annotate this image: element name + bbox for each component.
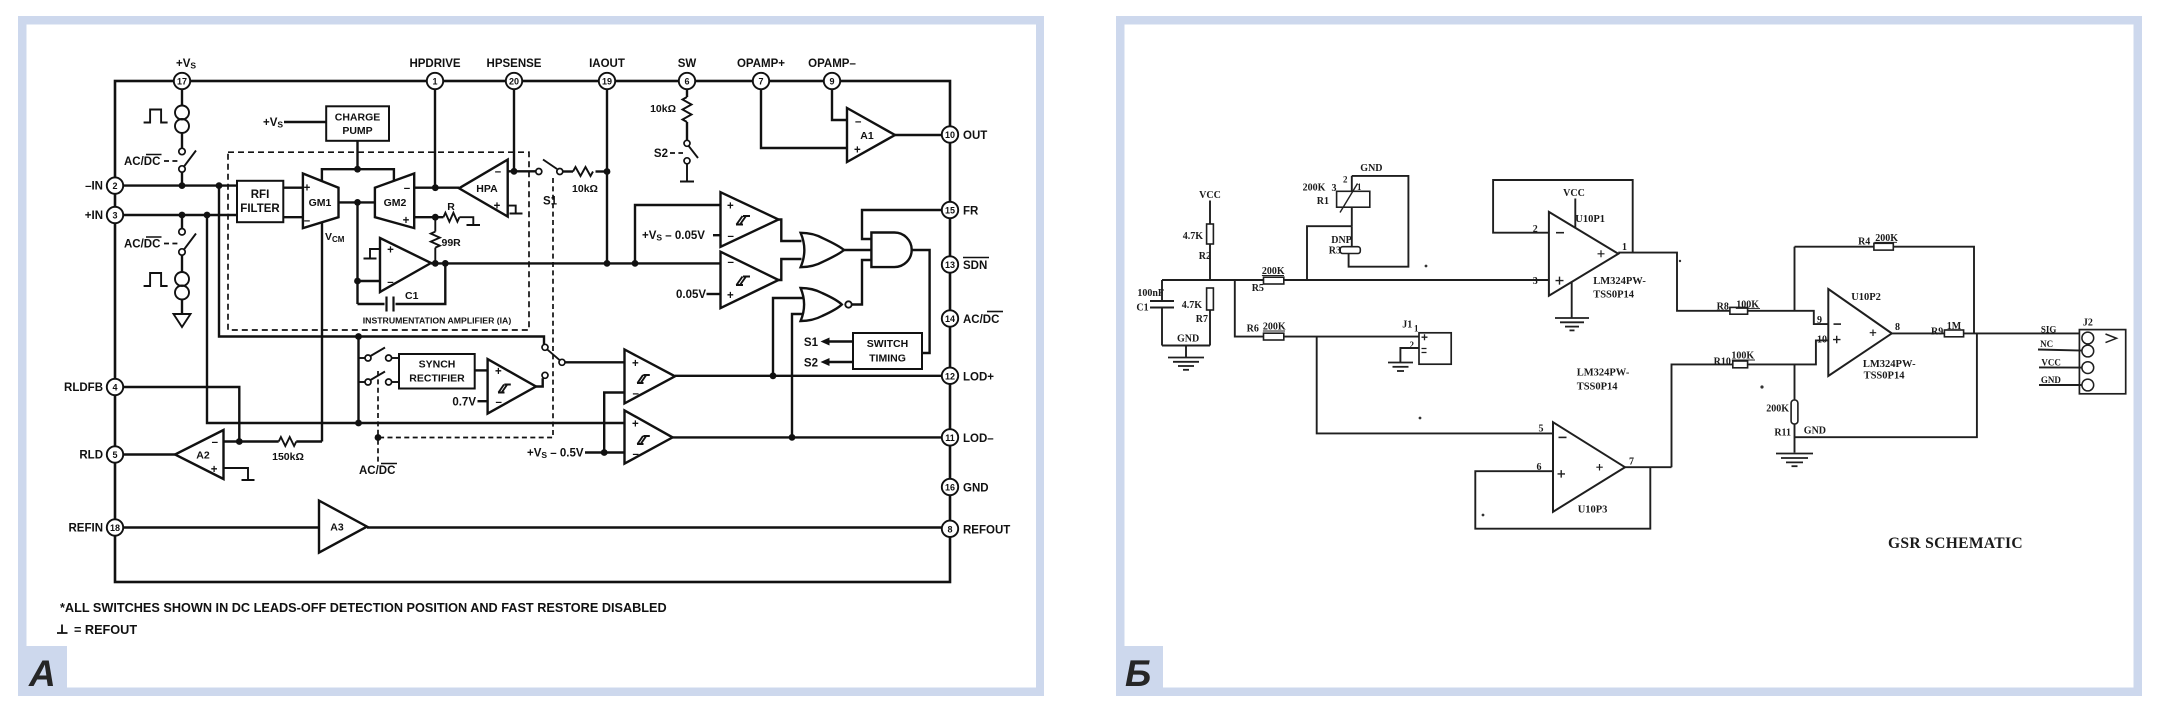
- svg-text:= REFOUT: = REFOUT: [74, 623, 137, 637]
- svg-text:RFI: RFI: [251, 189, 270, 201]
- label +Vs-0.05V: [642, 230, 721, 243]
- pulse symbol upper: [144, 110, 168, 123]
- op-amp HPA: [459, 160, 508, 217]
- wire C1 amp minus stub: [358, 280, 381, 282]
- svg-text:SDN: SDN: [963, 260, 987, 272]
- wire current source to switch: [181, 133, 183, 148]
- node A2 minus: [236, 438, 243, 445]
- svg-text:+VS – 0.5V: +VS – 0.5V: [527, 448, 584, 461]
- wire RFI to GM1 bottom: [283, 216, 303, 218]
- resistor R10 100K: [1714, 351, 1755, 368]
- resistor 10k S1: [563, 167, 607, 195]
- svg-text:–: –: [728, 257, 735, 269]
- svg-text:3: 3: [1332, 183, 1337, 194]
- comparator LOD-: [625, 410, 673, 463]
- switch timing box: [853, 333, 922, 369]
- svg-text:14: 14: [945, 314, 955, 324]
- connector J2: [2079, 318, 2125, 394]
- svg-text:–: –: [633, 388, 640, 400]
- pin 1 HPDRIVE: [409, 58, 460, 89]
- comparator LOD+: [625, 350, 676, 404]
- pin 3 +IN: [85, 207, 123, 223]
- label NC: [2038, 339, 2082, 351]
- current source upper: [175, 106, 189, 134]
- wire R to refout: [459, 217, 480, 225]
- svg-text:R3: R3: [1329, 246, 1341, 257]
- wire to arrow: [181, 300, 183, 314]
- svg-text:–: –: [728, 231, 735, 243]
- pin 4 RLDFB: [64, 379, 123, 395]
- wire -IN: [123, 184, 237, 186]
- svg-text:TSS0P14: TSS0P14: [1577, 382, 1619, 393]
- label GND J2: [2039, 375, 2082, 385]
- node +IN branch: [204, 212, 211, 219]
- switch S2: [684, 140, 698, 164]
- op-amp A1: [847, 108, 895, 162]
- svg-text:U10P3: U10P3: [1578, 505, 1608, 516]
- wire SPDT pole to comparator LOD+: [565, 361, 625, 363]
- svg-text:–: –: [387, 277, 394, 289]
- svg-text:VCC: VCC: [1563, 188, 1585, 199]
- wire GM1 to GM2 mid: [339, 201, 375, 203]
- wire comp1 out to OR: [779, 220, 802, 242]
- switch AC/DC lower: [179, 229, 196, 256]
- node LOD- tap: [789, 434, 796, 441]
- wire GM2 plus stub: [414, 216, 443, 218]
- svg-text:4.7K: 4.7K: [1182, 300, 1203, 311]
- wire U10P1 feedback: [1493, 180, 1633, 253]
- wire output gnd return: [1795, 333, 1977, 437]
- dashed control upper stub: [377, 371, 379, 438]
- svg-text:GSR SCHEMATIC: GSR SCHEMATIC: [1888, 535, 2023, 552]
- wire U10P3 output: [1625, 466, 1672, 468]
- refout symbol at A2 +: [224, 468, 255, 480]
- pin 19 IAOUT: [589, 58, 625, 89]
- svg-text:GM1: GM1: [309, 197, 332, 209]
- svg-text:R9: R9: [1931, 327, 1943, 338]
- node charge pump bridge: [354, 166, 361, 173]
- wire bridge GM1 GM2 tops: [322, 169, 394, 181]
- resistor R4 200K: [1795, 233, 1975, 333]
- wire IA output line: [431, 262, 721, 264]
- svg-text:PUMP: PUMP: [342, 125, 372, 137]
- svg-text:–: –: [212, 437, 219, 449]
- wire LOD+ comp minus reference: [604, 393, 624, 453]
- svg-text:–: –: [404, 183, 411, 195]
- svg-text:7: 7: [758, 77, 763, 87]
- svg-text:2: 2: [112, 181, 117, 191]
- OR gate: [801, 233, 844, 267]
- node IAOUT lower: [604, 260, 611, 267]
- label LM324PW U10P3: [1577, 368, 1630, 393]
- wire R1 gnd loop: [1349, 176, 1409, 267]
- wire LOD+ output to pin 12: [675, 375, 942, 377]
- ground divider: [1168, 346, 1204, 370]
- svg-text:R4: R4: [1858, 237, 1870, 248]
- svg-text:R8: R8: [1717, 302, 1729, 313]
- svg-text:9: 9: [1817, 315, 1822, 326]
- wire +IN node down to switch: [181, 215, 183, 229]
- svg-text:S2: S2: [654, 148, 668, 160]
- svg-text:–IN: –IN: [85, 181, 103, 193]
- resistor R3 DNP: [1329, 226, 1361, 256]
- svg-text:10: 10: [945, 130, 955, 140]
- wire RLDFB: [123, 387, 239, 442]
- op-amp U10P2: [1817, 289, 1900, 376]
- pin 15 FR: [942, 202, 979, 218]
- svg-text:LOD–: LOD–: [963, 433, 994, 445]
- wire -IN branch down and across: [219, 186, 544, 345]
- svg-text:R10: R10: [1714, 357, 1731, 368]
- svg-text:1: 1: [1622, 242, 1627, 253]
- wire charge pump output: [356, 141, 358, 169]
- svg-text:A3: A3: [330, 522, 344, 534]
- wire J1 pin2 to ground: [1400, 348, 1419, 362]
- svg-text:SW: SW: [678, 58, 697, 70]
- resistor 150k: [272, 437, 322, 463]
- footnote line 2: [57, 623, 137, 637]
- power VCC input divider: [1199, 190, 1221, 224]
- svg-text:20: 20: [509, 77, 519, 87]
- wire A1 out to pin 10: [895, 134, 942, 136]
- op-amp A3: [319, 501, 367, 553]
- svg-text:11: 11: [945, 433, 955, 443]
- wire main input net: [1162, 279, 1549, 281]
- label S2: [654, 148, 683, 160]
- wire +IN: [123, 214, 237, 216]
- svg-text:R6: R6: [1247, 324, 1259, 335]
- pulse symbol lower: [144, 273, 168, 286]
- svg-text:GM2: GM2: [384, 197, 407, 209]
- charge pump box: [326, 106, 389, 141]
- svg-text:TSS0P14: TSS0P14: [1864, 371, 1906, 382]
- wire A3 out to pin 8: [367, 526, 942, 528]
- svg-text:–: –: [855, 116, 862, 128]
- wire pin5 input: [1317, 337, 1553, 434]
- pin 13 SDN: [942, 256, 989, 272]
- svg-text:8: 8: [1895, 322, 1900, 333]
- node comp feed: [632, 260, 639, 267]
- svg-text:AC/DC: AC/DC: [124, 156, 160, 168]
- svg-text:150kΩ: 150kΩ: [272, 451, 304, 463]
- svg-text:C1: C1: [1136, 303, 1148, 314]
- node minus reference: [601, 449, 608, 456]
- potentiometer R1 200K: [1303, 175, 1370, 227]
- RFI filter box: [237, 181, 283, 222]
- svg-text:+: +: [727, 290, 734, 302]
- svg-text:1: 1: [432, 77, 437, 87]
- label LM324PW U10P2: [1863, 359, 1916, 382]
- svg-text:C1: C1: [405, 290, 419, 302]
- pin 11 LOD-: [942, 429, 994, 445]
- NOR gate: [801, 288, 852, 321]
- wire comp1 plus feed: [635, 205, 721, 263]
- wire RFI to GM1 top: [283, 186, 303, 188]
- svg-text:17: 17: [177, 77, 187, 87]
- wire U10P1 output: [1618, 253, 1730, 311]
- svg-text:RECTIFIER: RECTIFIER: [409, 373, 465, 385]
- svg-text:LM324PW-: LM324PW-: [1593, 276, 1646, 287]
- svg-text:LOD+: LOD+: [963, 371, 994, 383]
- svg-text:U10P1: U10P1: [1575, 214, 1605, 225]
- svg-text:R1: R1: [1317, 196, 1329, 207]
- wire +Vs to charge pump: [284, 121, 326, 123]
- pin 10 OUT: [942, 126, 987, 142]
- pin 18 REFIN: [69, 519, 124, 535]
- svg-text:18: 18: [110, 523, 120, 533]
- svg-text:OUT: OUT: [963, 130, 987, 142]
- svg-text:19: 19: [602, 77, 612, 87]
- svg-text:+: +: [632, 419, 639, 431]
- svg-text:7: 7: [1629, 457, 1634, 468]
- wire U10P2 output: [1892, 332, 1945, 334]
- IA dashed boundary box: [228, 152, 529, 330]
- svg-text:TSS0P14: TSS0P14: [1593, 290, 1635, 301]
- label AC/DC upper: [124, 155, 178, 169]
- svg-text:+VS – 0.05V: +VS – 0.05V: [642, 230, 705, 243]
- node IAOUT upper: [604, 168, 611, 175]
- pin 2 -IN: [85, 177, 123, 193]
- wire switch to -IN node: [181, 172, 183, 185]
- wire switch to current source lower: [181, 255, 183, 272]
- ground U10P1: [1555, 282, 1589, 330]
- wire NOR out to AND input: [852, 260, 872, 305]
- svg-text:GND: GND: [1360, 163, 1382, 174]
- arrow S2 from switch timing: [804, 358, 853, 370]
- comparator upper 0.05: [721, 192, 779, 247]
- node LOD+ tap: [770, 372, 777, 379]
- label +Vs-0.5V: [527, 448, 625, 461]
- label AC/DC lower: [124, 237, 178, 251]
- pin 12 LOD+: [942, 368, 994, 384]
- svg-text:+: +: [632, 358, 639, 370]
- svg-text:1M: 1M: [1947, 321, 1962, 332]
- svg-text:16: 16: [945, 483, 955, 493]
- wire synch rectifier riser: [357, 337, 359, 424]
- svg-text:S1: S1: [543, 196, 558, 208]
- svg-text:J1: J1: [1402, 320, 1412, 331]
- svg-text:FR: FR: [963, 206, 979, 218]
- svg-text:+VS: +VS: [263, 117, 283, 130]
- pin 8 REFOUT: [942, 521, 1010, 537]
- svg-text:HPSENSE: HPSENSE: [487, 58, 542, 70]
- svg-text:3: 3: [1533, 276, 1538, 287]
- svg-text:IAOUT: IAOUT: [589, 58, 625, 70]
- switch AC/DC upper: [179, 148, 196, 172]
- resistor 10k SW: [650, 89, 691, 140]
- svg-text:–: –: [496, 397, 503, 409]
- ground R11: [1776, 454, 1813, 467]
- wire Vcm down: [321, 223, 323, 442]
- svg-text:1: 1: [1357, 182, 1362, 192]
- synch rectifier box: [399, 354, 475, 389]
- svg-text:Б: Б: [1125, 653, 1151, 694]
- svg-text:+: +: [211, 464, 218, 476]
- resistor R7 4.7K: [1182, 288, 1214, 346]
- svg-text:VCC: VCC: [1199, 190, 1221, 201]
- svg-text:HPDRIVE: HPDRIVE: [409, 58, 460, 70]
- wire synch to 0.7V comp: [475, 369, 488, 371]
- resistor 99R: [431, 217, 461, 263]
- wire divider bottom: [1162, 345, 1210, 347]
- node HPDRIVE net: [432, 184, 439, 191]
- pin 5 RLD: [79, 446, 123, 462]
- svg-text:5: 5: [112, 450, 117, 460]
- svg-text:LM324PW-: LM324PW-: [1863, 359, 1916, 370]
- comparator lower 0.05: [721, 252, 779, 308]
- power VCC U10P1: [1563, 188, 1585, 228]
- svg-text:+: +: [495, 366, 502, 378]
- op-amp U10P3: [1537, 422, 1635, 515]
- svg-text:200K: 200K: [1766, 404, 1789, 415]
- refout symbol at C1 amp +: [364, 249, 381, 259]
- resistor R11 200K: [1766, 364, 1798, 452]
- svg-text:100nF: 100nF: [1137, 288, 1164, 299]
- svg-text:DNP: DNP: [1331, 235, 1352, 246]
- svg-text:–: –: [304, 215, 311, 227]
- svg-text:HPA: HPA: [476, 183, 498, 195]
- wire +IN branch to LOD- comp plus: [207, 215, 625, 423]
- capacitor C1: [358, 263, 446, 311]
- node LOD feed junction: [355, 420, 362, 427]
- label AC/DC fast restore: [357, 462, 401, 477]
- arrow S1 from switch timing: [804, 337, 853, 349]
- dashed control S1 line: [378, 178, 553, 463]
- svg-text:+: +: [387, 245, 394, 257]
- wire HPA minus to HPSENSE node: [508, 170, 536, 172]
- wire REFIN to A3: [123, 526, 319, 528]
- pin 6 SW: [678, 58, 697, 89]
- wire output to J2 SIG: [1964, 332, 2082, 334]
- wire AND out to switch timing: [912, 250, 930, 353]
- node +IN: [179, 212, 186, 219]
- svg-text:+: +: [854, 145, 861, 157]
- svg-text:OPAMP–: OPAMP–: [808, 58, 856, 70]
- svg-text:NC: NC: [2040, 339, 2053, 349]
- comparator 0.7V: [488, 359, 536, 414]
- wire OPAMP- to A1: [832, 89, 847, 120]
- svg-text:2: 2: [1343, 175, 1348, 185]
- svg-text:0.7V: 0.7V: [452, 397, 476, 409]
- svg-text:R11: R11: [1774, 428, 1791, 439]
- wire HPDRIVE vertical: [434, 89, 436, 188]
- switch S1: [536, 160, 563, 175]
- AND gate: [871, 233, 911, 268]
- svg-text:AC/DC: AC/DC: [124, 239, 160, 251]
- node mid: [354, 199, 361, 206]
- op-amp C1 integrator: [380, 238, 431, 292]
- wire +Vs pin17 to current source: [181, 89, 183, 106]
- wire 0.7V comp out to switch: [536, 378, 543, 386]
- svg-text:GND: GND: [1177, 334, 1199, 345]
- pin 9 OPAMP-: [808, 58, 856, 89]
- svg-text:–: –: [633, 449, 640, 461]
- svg-text:*ALL SWITCHES SHOWN IN DC LEAD: *ALL SWITCHES SHOWN IN DC LEADS-OFF DETE…: [60, 601, 667, 615]
- svg-text:LM324PW-: LM324PW-: [1577, 368, 1630, 379]
- capacitor C1 100nF: [1136, 280, 1174, 346]
- svg-text:3: 3: [112, 211, 117, 221]
- svg-text:+: +: [304, 183, 311, 195]
- svg-text:13: 13: [945, 260, 955, 270]
- svg-text:FILTER: FILTER: [240, 203, 280, 215]
- svg-text:1: 1: [1414, 324, 1419, 334]
- svg-text:+VS: +VS: [176, 58, 196, 71]
- svg-text:AC/DC: AC/DC: [963, 314, 999, 326]
- wire OPAMP+ to A1: [761, 89, 847, 148]
- svg-text:GND: GND: [963, 483, 989, 495]
- node dashed corner: [375, 434, 382, 441]
- wire NOR input B down to LOD-: [792, 314, 803, 437]
- label VCC J2: [2039, 358, 2082, 368]
- svg-text:10kΩ: 10kΩ: [650, 103, 676, 115]
- gm amplifier GM1: [303, 174, 339, 229]
- ground J1: [1388, 363, 1413, 372]
- svg-text:GND: GND: [2041, 375, 2061, 385]
- svg-text:8: 8: [947, 524, 952, 534]
- pin 14 AC/DC: [942, 310, 1003, 326]
- wire R4 feedback riser: [1794, 247, 1796, 311]
- pin 17 +Vs: [174, 58, 197, 89]
- op-amp A2: [175, 430, 224, 479]
- svg-text:SYNCH: SYNCH: [419, 359, 456, 371]
- svg-text:R: R: [447, 201, 455, 213]
- wire mid node down to C1 amp input: [356, 202, 358, 304]
- svg-text:VCC: VCC: [2041, 358, 2060, 368]
- svg-text:AC/DC: AC/DC: [359, 465, 395, 477]
- resistor R9 1M: [1931, 321, 1964, 338]
- svg-text:200K: 200K: [1303, 183, 1326, 194]
- svg-text:TIMING: TIMING: [869, 353, 906, 365]
- wire HPSENSE vertical: [513, 89, 515, 171]
- svg-text:+IN: +IN: [85, 210, 103, 222]
- label 0.7V: [452, 397, 487, 409]
- resistor R5 200K: [1252, 266, 1285, 294]
- resistor R8 100K: [1717, 300, 1760, 315]
- svg-text:0.05V: 0.05V: [676, 289, 706, 301]
- svg-text:9: 9: [829, 77, 834, 87]
- svg-text:GND: GND: [1804, 426, 1826, 437]
- svg-text:RLD: RLD: [79, 450, 103, 462]
- node 99R output: [432, 260, 439, 267]
- svg-text:4: 4: [112, 383, 117, 393]
- wire NOR input A down to LOD+: [773, 298, 803, 376]
- svg-text:CHARGE: CHARGE: [335, 112, 381, 124]
- wire FR to AND input: [862, 210, 942, 239]
- wire OR out to AND: [844, 249, 871, 251]
- svg-text:99R: 99R: [442, 237, 462, 249]
- op-amp U10P1: [1533, 212, 1627, 296]
- arrow down open triangle: [174, 314, 191, 327]
- wire R8 to pin9: [1748, 311, 1829, 324]
- refout symbol at HPA +: [508, 206, 523, 214]
- svg-text:+: +: [403, 215, 410, 227]
- wire R1 branch riser: [1307, 226, 1352, 280]
- svg-text:A1: A1: [860, 130, 874, 142]
- IC outline box AD8232: [115, 81, 950, 582]
- svg-text:4.7K: 4.7K: [1183, 231, 1204, 242]
- switch fast restore SPDT: [542, 344, 565, 378]
- svg-text:10kΩ: 10kΩ: [572, 183, 598, 195]
- svg-text:U10P2: U10P2: [1851, 292, 1881, 303]
- svg-text:R5: R5: [1252, 283, 1264, 294]
- svg-text:–: –: [495, 166, 502, 178]
- pin 16 GND: [942, 479, 989, 495]
- svg-text:6: 6: [684, 77, 689, 87]
- svg-text:OPAMP+: OPAMP+: [737, 58, 785, 70]
- wire RLD to A2: [123, 453, 175, 455]
- node HPSENSE: [511, 168, 518, 175]
- svg-text:INSTRUMENTATION AMPLIFIER (IA): INSTRUMENTATION AMPLIFIER (IA): [363, 316, 512, 326]
